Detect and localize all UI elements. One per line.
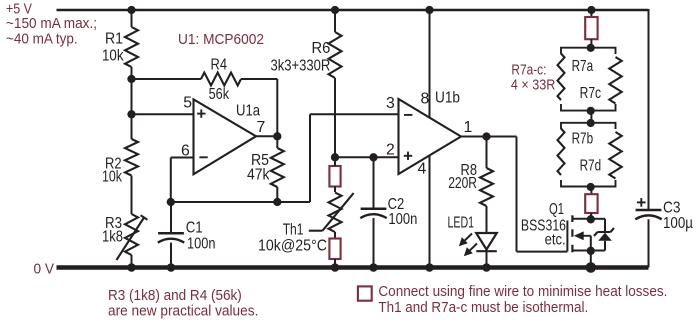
node C2 / 0V junction: [369, 263, 378, 272]
node R1/R2/R4 junction: [127, 75, 135, 83]
wire R7 pair2 to marker: [590, 187, 592, 195]
wire marker to thermistor: [334, 187, 336, 193]
svg-text:U1b: U1b: [435, 89, 460, 106]
wire pin6 down to C1 node: [170, 158, 172, 203]
fine-wire marker R7 bottom: [585, 194, 597, 213]
svg-text:1: 1: [464, 119, 473, 136]
wire +5V top rail: [57, 9, 649, 11]
svg-text:etc.: etc.: [545, 232, 566, 249]
wire gate drive down: [516, 137, 518, 252]
capacitor C3: [636, 209, 662, 212]
node top rail / R6 junction: [331, 6, 339, 14]
wire R1 top lead: [131, 10, 133, 27]
node R7 pair2 top: [587, 119, 595, 127]
wire R3 bottom lead: [131, 255, 133, 268]
wire gate drive right: [517, 251, 568, 253]
resistor R3 (preset): [125, 214, 138, 255]
wire R8 to LED1: [486, 206, 488, 233]
capacitor C2: [361, 208, 387, 211]
svg-text:220R: 220R: [448, 175, 477, 192]
resistor R5: [271, 148, 284, 187]
wire C2 top lead: [373, 157, 375, 209]
wire R4 right lead: [241, 78, 277, 80]
resistor R2: [125, 139, 138, 176]
wire R1 bottom to R4 node: [131, 67, 133, 79]
fine-wire legend symbol: [358, 286, 372, 300]
svg-text:8: 8: [421, 91, 430, 108]
node U1a output / R4 / R5 junction: [273, 132, 281, 140]
node Th1 / 0V junction: [331, 263, 340, 272]
wire 0V bottom rail: [57, 265, 649, 270]
svg-text:100µ: 100µ: [663, 215, 693, 232]
svg-text:6: 6: [181, 143, 190, 160]
wire thermistor to bottom marker: [334, 232, 336, 239]
wire diode to source: [591, 250, 605, 252]
fine-wire marker R7 top: [585, 17, 597, 39]
svg-text:are new practical values.: are new practical values.: [108, 303, 258, 319]
op-amp U1b triangle: [399, 99, 462, 174]
svg-text:Connect using fine wire to min: Connect using fine wire to minimise heat…: [378, 284, 667, 300]
capacitor C1: [158, 232, 184, 235]
node R3 / 0V junction: [127, 263, 136, 272]
wire Q1 source stub: [572, 250, 590, 252]
resistor R7a: [558, 54, 565, 101]
svg-text:R4: R4: [211, 56, 228, 73]
svg-text:100n: 100n: [187, 235, 216, 252]
svg-text:R7c: R7c: [580, 85, 602, 102]
svg-text:C3: C3: [663, 199, 681, 216]
svg-text:R7d: R7d: [580, 158, 602, 175]
resistor R1: [125, 27, 138, 67]
wire C3 top lead: [648, 9, 650, 210]
svg-text:10k@25°C: 10k@25°C: [258, 238, 327, 255]
resistor R4: [201, 73, 241, 86]
node R5 bottom junction: [273, 198, 281, 206]
wire diode cathode lead: [604, 219, 606, 232]
wire R4 down to U1a output: [276, 79, 278, 136]
node R7 pair2 bottom: [587, 183, 595, 191]
transistor Q1 channel body segment: [571, 229, 573, 237]
transistor Q1 gate bar: [566, 221, 568, 252]
wire R4 left lead: [132, 78, 202, 80]
op-amp U1a minus sign: [199, 156, 207, 158]
wire C1 bottom lead: [170, 243, 172, 268]
svg-text:U1: MCP6002: U1: MCP6002: [178, 32, 264, 48]
svg-text:56k: 56k: [209, 86, 230, 103]
wire Th1 bottom lead: [334, 259, 336, 268]
resistor R7d: [609, 132, 621, 179]
transistor Q1 channel drain segment: [571, 215, 573, 222]
node top rail / R1 junction: [127, 6, 135, 14]
wire Q1 drain stub: [572, 218, 590, 220]
fine-wire marker Th1 bottom: [329, 239, 340, 260]
wire R5 top lead: [276, 136, 278, 148]
node top rail / pin8 junction: [425, 6, 433, 14]
node Q1 / 0V junction: [586, 262, 597, 273]
wire Q1 body to source: [590, 236, 592, 251]
wire R6 top lead: [334, 10, 336, 32]
wire marker to Q1 drain: [590, 213, 592, 220]
svg-text:1k8: 1k8: [102, 229, 123, 246]
resistor R8: [480, 168, 493, 206]
wire C2 bottom lead: [373, 218, 375, 267]
svg-text:5: 5: [183, 95, 192, 112]
wire U1a pin6 stub: [171, 157, 194, 159]
wire output to gate corner: [487, 136, 517, 138]
svg-text:R3 (1k8) and R4 (56k): R3 (1k8) and R4 (56k): [108, 288, 242, 304]
svg-text:10k: 10k: [102, 48, 124, 65]
op-amp U1a plus sign: [197, 113, 205, 115]
thermistor Th1: [329, 193, 342, 233]
svg-text:C1: C1: [186, 220, 203, 237]
wire R5 bottom lead: [276, 187, 278, 202]
node C1 / 0V junction: [167, 263, 176, 272]
wire U1a output: [256, 135, 277, 137]
wire C3 bottom lead: [648, 219, 650, 267]
wire U1b pin4 supply: [429, 155, 431, 267]
resistor R6: [329, 32, 342, 78]
node C1 top junction: [167, 198, 175, 206]
node R2/pin5 junction: [127, 110, 135, 118]
op-amp U1b minus sign: [404, 114, 412, 116]
wire U1b pin2 input: [335, 156, 399, 158]
wire diode anode lead: [604, 241, 606, 251]
wire Th1 top lead: [334, 157, 336, 166]
node Q1 drain junction: [587, 215, 595, 223]
node top rail / R7 junction: [587, 6, 595, 14]
wire U1b pin8 supply: [429, 10, 431, 118]
svg-text:~40 mA typ.: ~40 mA typ.: [6, 32, 78, 48]
svg-text:R1: R1: [105, 31, 123, 48]
transistor Q1 body arrow: [583, 235, 591, 237]
body diode of Q1: [598, 231, 611, 233]
node R7 pair1 top: [587, 44, 595, 52]
svg-text:2: 2: [386, 141, 395, 158]
wire Q1 source to 0V: [590, 251, 592, 268]
wire LED1 bottom lead: [486, 251, 488, 267]
svg-text:100n: 100n: [388, 211, 417, 228]
svg-text:7: 7: [257, 119, 266, 136]
wire C1 top lead: [170, 202, 172, 233]
wire R7 pair1 frame: [561, 48, 616, 111]
wire U1a pin5 input: [132, 113, 194, 115]
fine-wire marker Th1 top: [329, 166, 340, 187]
LED LED1: [476, 233, 497, 250]
node R6 / Th1 / pin2 junction: [331, 153, 339, 161]
svg-text:3k3+330R: 3k3+330R: [271, 58, 331, 75]
wire R7 pair2 frame: [561, 123, 616, 187]
svg-text:LED1: LED1: [448, 215, 475, 232]
svg-text:4 × 33R: 4 × 33R: [511, 78, 555, 94]
wire U1b output: [461, 136, 487, 138]
node pin4 / 0V junction: [425, 263, 434, 272]
svg-text:R7a-c:: R7a-c:: [511, 63, 546, 79]
wire to U1b pin3: [310, 113, 399, 115]
wire between R7 pairs: [590, 111, 592, 123]
svg-text:10k: 10k: [102, 168, 122, 185]
node C2 top junction: [369, 153, 377, 161]
wire R1-R2 segment: [131, 79, 133, 114]
wire R2 top lead: [131, 114, 133, 139]
LED1 light arrows: [464, 234, 472, 242]
svg-text:0 V: 0 V: [34, 262, 55, 278]
svg-text:3: 3: [386, 95, 395, 112]
wire R2-R3 segment: [131, 176, 133, 215]
svg-text:47k: 47k: [247, 167, 270, 184]
svg-text:R7a: R7a: [572, 58, 594, 75]
wire drain to diode: [591, 218, 605, 220]
wire feedback up: [309, 114, 311, 202]
transistor Q1 channel source segment: [571, 245, 573, 253]
svg-text:~150 mA max.;: ~150 mA max.;: [6, 16, 97, 32]
svg-text:4: 4: [418, 161, 427, 178]
node U1b output junction: [482, 132, 490, 140]
resistor R7b: [558, 129, 565, 176]
svg-text:R7b: R7b: [572, 130, 594, 147]
svg-text:R6: R6: [312, 40, 331, 57]
wire R8 top lead: [486, 137, 488, 169]
resistor R7c: [609, 57, 621, 104]
node Q1 source junction: [587, 247, 595, 255]
svg-text:Th1 and R7a-c must be isotherm: Th1 and R7a-c must be isothermal.: [378, 300, 588, 316]
wire R6 bottom to Th1: [334, 78, 336, 157]
op-amp U1b plus sign: [404, 155, 412, 157]
wire C1 node horizontal: [171, 201, 310, 203]
node R7 pair1 bottom: [587, 107, 595, 115]
wire marker to R7 pair1: [590, 39, 592, 48]
capacitor C3 plus sign: [637, 201, 646, 203]
svg-text:Th1: Th1: [283, 221, 304, 238]
node LED1 / 0V junction: [482, 263, 491, 272]
wire R7 top lead: [590, 10, 592, 17]
op-amp U1a triangle: [194, 99, 257, 174]
svg-text:Q1: Q1: [549, 201, 564, 218]
svg-text:U1a: U1a: [236, 102, 260, 119]
